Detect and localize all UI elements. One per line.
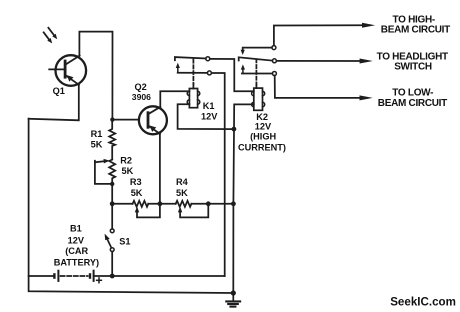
svg-text:5K: 5K (176, 188, 188, 198)
svg-text:3906: 3906 (132, 92, 151, 102)
svg-text:R2: R2 (120, 156, 132, 166)
svg-text:5K: 5K (91, 139, 103, 149)
svg-text:(CAR: (CAR (65, 246, 88, 256)
svg-text:CURRENT): CURRENT) (238, 142, 286, 152)
svg-text:SeekIC.com: SeekIC.com (390, 296, 456, 309)
svg-text:5K: 5K (122, 166, 134, 176)
svg-text:BEAM CIRCUIT: BEAM CIRCUIT (381, 25, 450, 36)
svg-text:Q2: Q2 (135, 82, 147, 92)
svg-text:SWITCH: SWITCH (394, 62, 432, 73)
svg-text:(HIGH: (HIGH (250, 131, 276, 141)
svg-text:B1: B1 (70, 224, 82, 234)
svg-text:5K: 5K (131, 188, 143, 198)
svg-text:K2: K2 (256, 112, 268, 122)
svg-text:12V: 12V (201, 111, 218, 121)
svg-text:BATTERY): BATTERY) (54, 258, 99, 268)
svg-text:12V: 12V (68, 235, 85, 245)
svg-text:R4: R4 (176, 177, 189, 187)
svg-text:S1: S1 (119, 236, 130, 246)
svg-text:12V: 12V (255, 122, 272, 132)
svg-text:R3: R3 (130, 177, 142, 187)
svg-text:R1: R1 (91, 129, 103, 139)
svg-text:Q1: Q1 (53, 86, 65, 96)
svg-text:K1: K1 (203, 101, 215, 111)
svg-text:BEAM CIRCUIT: BEAM CIRCUIT (378, 98, 447, 109)
